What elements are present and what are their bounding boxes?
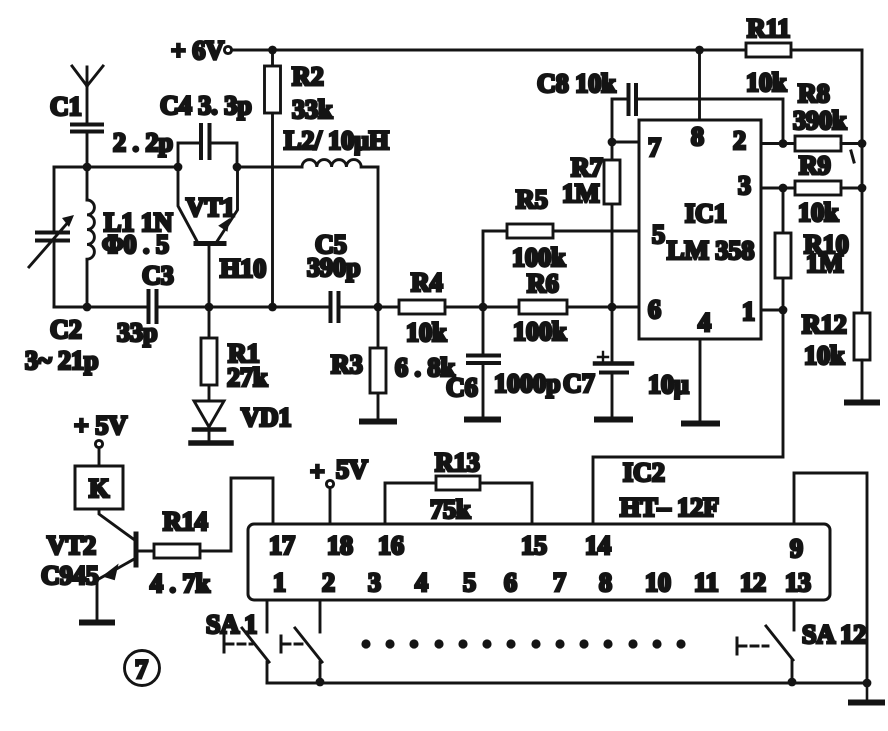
svg-text:C945: C945 xyxy=(41,561,99,590)
svg-text:16: 16 xyxy=(378,531,404,560)
resistor R6 xyxy=(483,269,639,346)
svg-text:+: + xyxy=(310,457,325,486)
wire pin9 to ground rail xyxy=(794,473,867,683)
svg-text:3: 3 xyxy=(368,568,381,597)
svg-text:10k: 10k xyxy=(798,198,839,227)
ground VT2 xyxy=(82,620,112,626)
svg-text:10μ: 10μ xyxy=(648,370,689,399)
wire node A horizontal xyxy=(54,166,178,169)
capacitor C6 xyxy=(446,307,560,417)
svg-text:1000p: 1000p xyxy=(494,369,560,398)
svg-text:C8 10k: C8 10k xyxy=(537,69,616,98)
resistor R1 xyxy=(201,307,268,400)
capacitor C5 xyxy=(307,230,360,321)
capacitor C3 xyxy=(117,261,329,347)
svg-text:4 . 7k: 4 . 7k xyxy=(150,569,211,598)
svg-text:IC2: IC2 xyxy=(623,458,665,487)
svg-text:7: 7 xyxy=(553,568,566,597)
node R3 top junction xyxy=(374,303,383,312)
resistor R11 xyxy=(746,14,862,97)
capacitor C7 xyxy=(563,307,689,417)
svg-text:IC1: IC1 xyxy=(685,199,727,228)
ground R12 xyxy=(847,400,877,406)
svg-text:6: 6 xyxy=(504,568,517,597)
svg-text:+ 6V: + 6V xyxy=(171,36,224,65)
svg-text:7: 7 xyxy=(135,655,148,684)
wire pin2 xyxy=(761,142,795,145)
inductor L1 xyxy=(87,167,173,307)
svg-text:18: 18 xyxy=(327,531,353,560)
svg-text:4: 4 xyxy=(415,568,428,597)
node R9 right junction xyxy=(858,184,867,193)
svg-text:C3: C3 xyxy=(142,261,174,290)
resistor R3 xyxy=(331,307,456,419)
svg-text:1M: 1M xyxy=(806,249,844,278)
svg-text:390p: 390p xyxy=(307,253,360,282)
node pin3 junction xyxy=(779,184,788,193)
svg-text:10k: 10k xyxy=(406,318,447,347)
node pin8 top junction xyxy=(695,46,704,55)
svg-text:VD1: VD1 xyxy=(241,403,292,432)
wire right rail xyxy=(861,50,864,313)
wire C2 branch xyxy=(53,167,56,307)
transistor VT2 xyxy=(41,509,136,620)
node A junction xyxy=(83,163,92,172)
svg-text:R11: R11 xyxy=(747,14,790,43)
svg-text:1: 1 xyxy=(742,297,755,326)
svg-text:R12: R12 xyxy=(802,310,847,339)
svg-text:11: 11 xyxy=(694,568,719,597)
svg-text:SA 12: SA 12 xyxy=(802,620,866,649)
svg-text:7: 7 xyxy=(648,133,661,162)
wire pin7 xyxy=(612,141,639,144)
op-amp IC1 LM358 xyxy=(639,120,761,339)
svg-text:L2/ 10μH: L2/ 10μH xyxy=(284,126,389,155)
svg-text:SA 1: SA 1 xyxy=(206,610,257,639)
node pin7 junction xyxy=(608,138,617,147)
wire rail C5 to R4 xyxy=(340,306,400,309)
wire +6V rail xyxy=(232,49,746,52)
svg-text:C2: C2 xyxy=(50,315,82,344)
svg-text:C1: C1 xyxy=(50,92,82,121)
svg-text:9: 9 xyxy=(790,534,803,563)
svg-text:R8: R8 xyxy=(798,79,830,108)
node VT1 right junction xyxy=(233,163,242,172)
capacitor C1 xyxy=(50,92,173,165)
resistor R2 xyxy=(265,50,334,307)
resistor R10 xyxy=(775,188,849,310)
wire pin3 xyxy=(761,187,795,190)
svg-text:R14: R14 xyxy=(163,507,208,536)
node pin2 junction xyxy=(779,139,788,148)
svg-text:H10: H10 xyxy=(220,254,266,283)
svg-text:10k: 10k xyxy=(746,68,787,97)
svg-text:5V: 5V xyxy=(336,455,368,484)
svg-text:12: 12 xyxy=(740,568,766,597)
svg-text:2: 2 xyxy=(322,568,335,597)
power +6V terminal xyxy=(171,36,232,65)
resistor R4 xyxy=(399,268,483,347)
svg-text:15: 15 xyxy=(521,531,547,560)
svg-text:R7: R7 xyxy=(571,153,603,182)
ground C6 xyxy=(467,417,498,423)
svg-text:8: 8 xyxy=(691,122,704,151)
node R2 top junction xyxy=(268,46,277,55)
node VT1 base junction xyxy=(205,303,214,312)
svg-text:75k: 75k xyxy=(430,495,471,524)
wire bottom rail left xyxy=(54,306,147,309)
node ground rail junction xyxy=(863,679,872,688)
node R8 right junction xyxy=(858,139,867,148)
resistor R12 xyxy=(802,310,870,400)
resistor R7 xyxy=(562,142,620,307)
wire R14 to IC2 pin17 xyxy=(200,478,273,551)
resistor R13 xyxy=(385,448,532,524)
resistor R8 xyxy=(793,79,862,151)
svg-text:4: 4 xyxy=(698,308,711,337)
wire pin1 to IC2 pin14 xyxy=(593,310,783,524)
svg-text:K: K xyxy=(89,474,110,503)
svg-text:100k: 100k xyxy=(513,317,567,346)
svg-text:C7: C7 xyxy=(563,369,595,398)
ground right rail xyxy=(851,683,882,703)
svg-text:C6: C6 xyxy=(446,373,478,402)
svg-text:C4 3. 3p: C4 3. 3p xyxy=(160,91,252,120)
wire switch bottom rail xyxy=(267,682,867,685)
node pin1 junction xyxy=(779,306,788,315)
wire pin1 xyxy=(761,309,783,312)
svg-text:5: 5 xyxy=(652,220,665,249)
svg-text:10k: 10k xyxy=(804,341,845,370)
svg-text:R2: R2 xyxy=(292,62,324,91)
svg-text:R9: R9 xyxy=(799,151,831,180)
svg-text:5: 5 xyxy=(463,568,476,597)
node R6 right junction xyxy=(608,303,617,312)
svg-text:R13: R13 xyxy=(435,448,480,477)
ground R3 xyxy=(362,419,394,425)
tick mark xyxy=(851,151,854,162)
inductor L2 xyxy=(237,126,389,167)
switch SA1 xyxy=(206,600,269,683)
node L1 bottom junction xyxy=(83,303,92,312)
svg-text:13: 13 xyxy=(785,568,811,597)
svg-text:10: 10 xyxy=(645,568,671,597)
svg-text:3: 3 xyxy=(738,171,751,200)
svg-text:3~ 21p: 3~ 21p xyxy=(25,346,98,375)
switch SA12 xyxy=(737,600,866,686)
wire pin8 xyxy=(698,50,701,120)
svg-text:VT1: VT1 xyxy=(186,193,235,222)
antenna xyxy=(72,66,103,123)
svg-text:R6: R6 xyxy=(527,269,559,298)
svg-text:+ 5V: + 5V xyxy=(74,411,127,440)
svg-text:27k: 27k xyxy=(227,363,268,392)
wire pin4 xyxy=(699,339,702,421)
capacitor C8 xyxy=(537,69,783,144)
node VT1 left junction xyxy=(174,163,183,172)
svg-text:1: 1 xyxy=(273,568,286,597)
resistor R9 xyxy=(795,151,862,227)
resistor R5 xyxy=(507,185,639,272)
svg-text:8: 8 xyxy=(599,568,612,597)
svg-text:33k: 33k xyxy=(292,95,333,124)
svg-text:17: 17 xyxy=(269,531,295,560)
IC2 HT-12F box xyxy=(248,524,830,600)
wire L2 drop xyxy=(377,167,380,307)
svg-text:VT2: VT2 xyxy=(47,531,96,560)
power +5V terminal IC2 xyxy=(310,455,368,524)
ground C7 xyxy=(597,417,630,423)
power +5V terminal left xyxy=(74,411,127,466)
svg-text:14: 14 xyxy=(585,531,611,560)
wire R5 riser xyxy=(483,231,507,307)
switch SA2 xyxy=(281,600,324,686)
svg-text:100k: 100k xyxy=(512,243,566,272)
node R4 right junction xyxy=(479,303,488,312)
capacitor C4 xyxy=(160,91,252,167)
svg-text:390k: 390k xyxy=(793,106,847,135)
svg-text:LM 358: LM 358 xyxy=(667,236,754,265)
relay K xyxy=(75,466,123,509)
svg-text:R4: R4 xyxy=(411,268,443,297)
svg-text:HT– 12F: HT– 12F xyxy=(620,493,719,522)
svg-text:2 . 2p: 2 . 2p xyxy=(113,128,173,157)
capacitor C2 (variable) xyxy=(25,215,98,375)
transistor VT1 xyxy=(178,167,266,307)
ground pin4 xyxy=(684,421,717,427)
svg-text:1M: 1M xyxy=(562,179,600,208)
svg-text:2: 2 xyxy=(733,126,746,155)
svg-text:6: 6 xyxy=(648,295,661,324)
svg-text:R5: R5 xyxy=(516,185,548,214)
svg-text:33p: 33p xyxy=(117,318,157,347)
resistor R14 xyxy=(138,507,211,598)
figure number 7 xyxy=(125,651,160,686)
dots continuation row xyxy=(361,639,685,648)
node R2 bottom junction xyxy=(268,303,277,312)
svg-text:Φ0 . 5: Φ0 . 5 xyxy=(102,230,169,259)
svg-text:R3: R3 xyxy=(331,350,363,379)
diode VD1 xyxy=(191,401,292,443)
